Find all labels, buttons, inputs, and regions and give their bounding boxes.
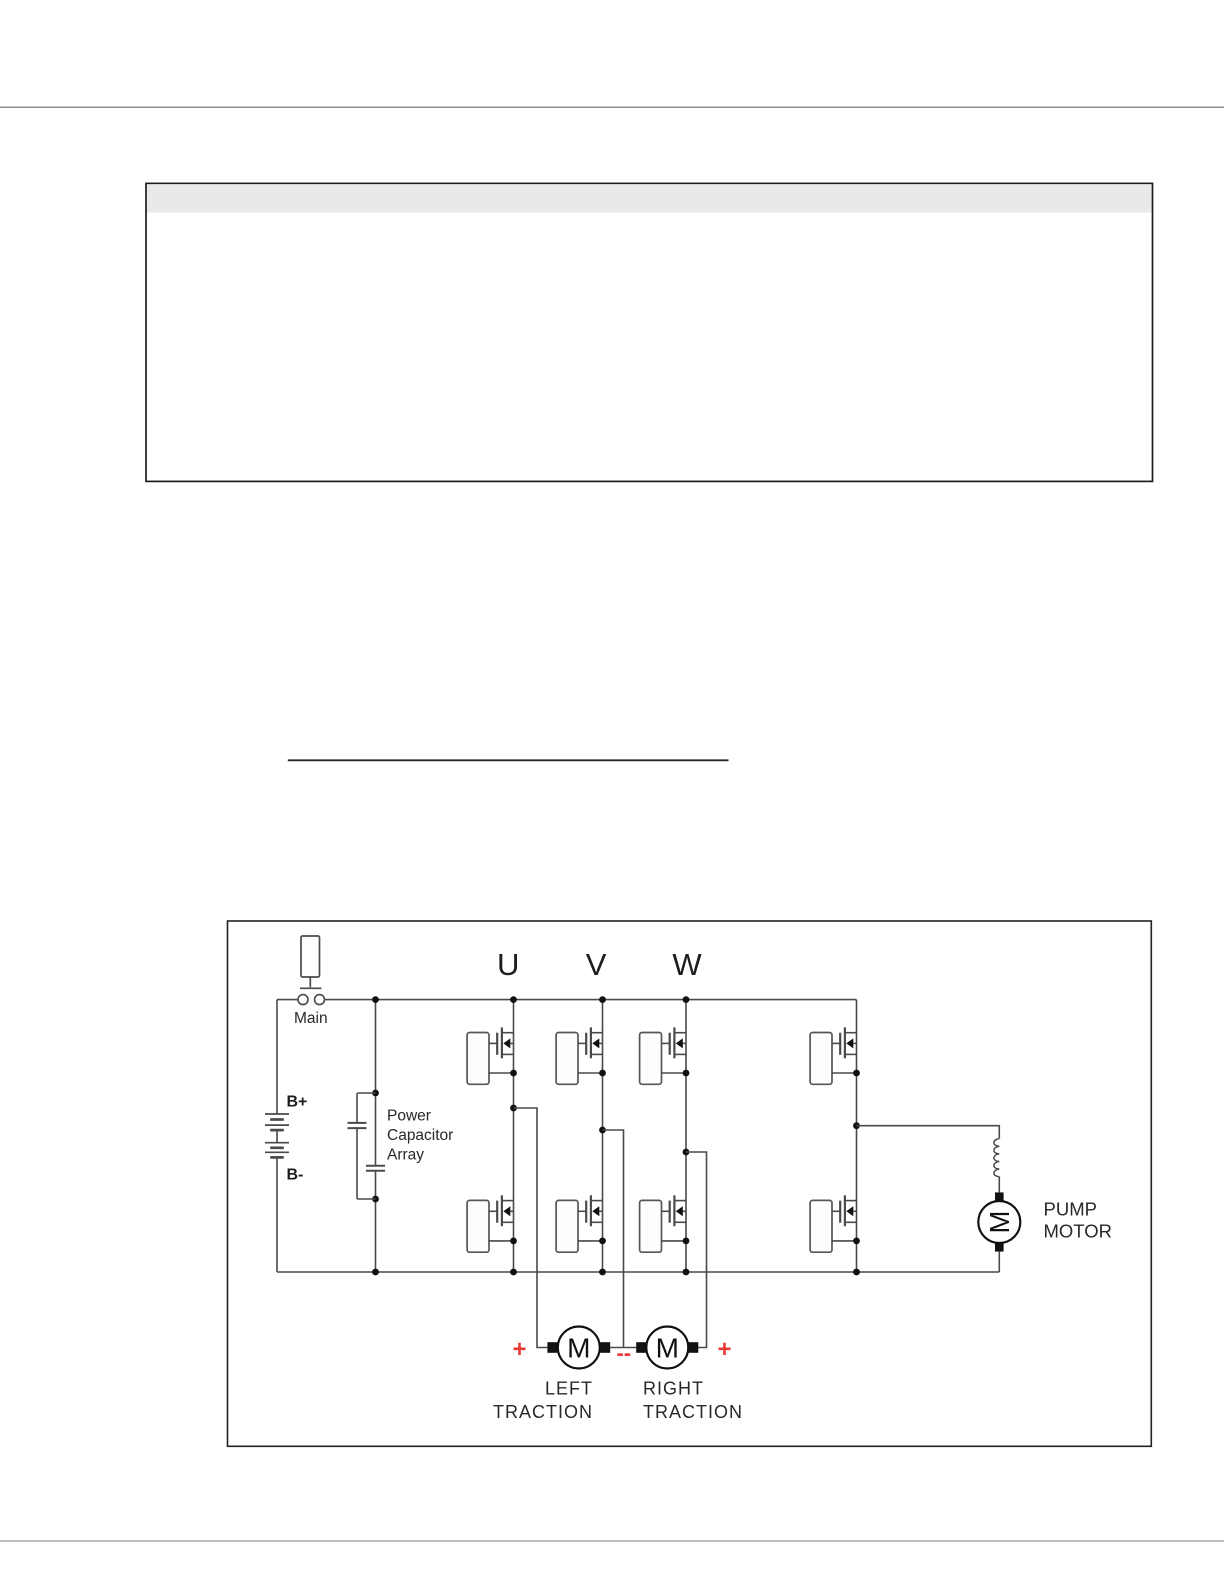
- junction: cap array on top rail: [372, 996, 379, 1003]
- wire: top rail (battery to contact): [277, 999, 298, 1001]
- wire: cap array vertical (upper): [375, 1000, 377, 1166]
- wire: battery positive lead: [276, 1000, 278, 1114]
- junction: P phase output node: [853, 1122, 860, 1129]
- junction: QUH driver stub: [510, 1070, 517, 1077]
- main contactor coil: [300, 936, 322, 988]
- capacitor C2: [366, 1166, 385, 1171]
- capacitor C1: [348, 1123, 367, 1128]
- svg-text:M: M: [567, 1332, 590, 1363]
- svg-text:V: V: [586, 947, 607, 982]
- svg-text:B-: B-: [287, 1166, 304, 1183]
- svg-text:Main: Main: [294, 1010, 328, 1027]
- mosfet QWL (low-side): [661, 1195, 686, 1226]
- junction: QWH driver stub: [683, 1070, 690, 1077]
- junction: QPH driver stub: [853, 1070, 860, 1077]
- wire: W phase to right motor: [686, 1152, 707, 1348]
- motor M1 (LEFT TRACTION): [558, 1327, 600, 1369]
- mosfet QPL (low-side): [832, 1195, 857, 1226]
- junction: cap array bottom node: [372, 1196, 379, 1203]
- junction: U leg on bottom rail: [510, 1269, 517, 1276]
- terminal: pump motor -: [995, 1243, 1004, 1252]
- gate driver block (V low-side): [556, 1200, 578, 1252]
- note box header band: [147, 184, 1152, 212]
- mosfet QPH (high-side): [832, 1027, 857, 1058]
- svg-text:B+: B+: [287, 1093, 308, 1110]
- wire: inductor to pump motor: [998, 1177, 1000, 1193]
- battery B: [265, 1114, 289, 1157]
- motor M2 (RIGHT TRACTION): [646, 1327, 688, 1369]
- wire: P leg vertical: [856, 1000, 858, 1272]
- gate driver block (P high-side): [810, 1033, 832, 1085]
- wire: link between traction motors: [610, 1347, 636, 1349]
- gate driver block (U low-side): [467, 1200, 489, 1252]
- wire: U phase to left motor: [514, 1108, 548, 1348]
- svg-text:M: M: [984, 1211, 1015, 1234]
- terminal: right motor + (outer): [688, 1342, 699, 1353]
- note box frame: [146, 183, 1153, 481]
- wire: pump motor return: [998, 1252, 1000, 1272]
- wire: battery negative lead: [276, 1157, 278, 1272]
- terminal: left motor - (inner): [600, 1342, 611, 1353]
- wire: pump phase output: [857, 1126, 1000, 1139]
- main contactor contacts: [298, 995, 325, 1005]
- mosfet QVH (high-side): [578, 1027, 603, 1058]
- wire: cap array vertical (lower): [375, 1171, 377, 1272]
- wire: V leg vertical: [602, 1000, 604, 1272]
- wire: capacitor C1 branch: [357, 1093, 376, 1199]
- gate driver block (U high-side): [467, 1033, 489, 1085]
- junction: W leg on bottom rail: [683, 1269, 690, 1276]
- terminal: left motor + (outer): [547, 1342, 558, 1353]
- mosfet QUH (high-side): [489, 1027, 514, 1058]
- gate driver block (W high-side): [640, 1033, 662, 1085]
- mosfet QUL (low-side): [489, 1195, 514, 1226]
- blank link underline: [288, 759, 729, 761]
- wire: bottom rail (B- bus): [277, 1271, 999, 1273]
- gate driver block (W low-side): [640, 1200, 662, 1252]
- svg-text:+: +: [717, 1336, 731, 1363]
- mosfet QVL (low-side): [578, 1195, 603, 1226]
- junction: cap array top node: [372, 1090, 379, 1097]
- gate driver block (V high-side): [556, 1033, 578, 1085]
- junction: U phase output node: [510, 1105, 517, 1112]
- motor M3 (PUMP): [978, 1201, 1020, 1243]
- terminal: pump motor +: [995, 1192, 1004, 1201]
- junction: QWL driver stub: [683, 1238, 690, 1245]
- top rule: [0, 106, 1224, 108]
- svg-text:+: +: [512, 1336, 526, 1363]
- terminal: right motor - (inner): [636, 1342, 647, 1353]
- junction: cap array on bottom rail: [372, 1269, 379, 1276]
- junction: V leg on top rail: [599, 996, 606, 1003]
- gate driver block (P low-side): [810, 1200, 832, 1252]
- junction: QPL driver stub: [853, 1238, 860, 1245]
- junction: W leg on top rail: [683, 996, 690, 1003]
- wire: U leg vertical: [513, 1000, 515, 1272]
- junction: QVL driver stub: [599, 1238, 606, 1245]
- svg-text:--: --: [616, 1340, 631, 1365]
- bottom rule: [0, 1540, 1224, 1542]
- junction: P leg on bottom rail: [853, 1269, 860, 1276]
- figure frame: [228, 921, 1152, 1446]
- svg-text:U: U: [497, 947, 519, 982]
- svg-text:M: M: [656, 1332, 679, 1363]
- junction: V phase output node: [599, 1127, 606, 1134]
- wire: top rail (B+ bus): [325, 999, 857, 1001]
- junction: W phase output node: [683, 1149, 690, 1156]
- mosfet QWH (high-side): [661, 1027, 686, 1058]
- inductor L1 (pump motor field): [994, 1139, 999, 1177]
- wire: V phase to motor link: [603, 1130, 624, 1348]
- wire: W leg vertical: [685, 1000, 687, 1272]
- svg-text:W: W: [672, 947, 702, 982]
- junction: U leg on top rail: [510, 996, 517, 1003]
- junction: V leg on bottom rail: [599, 1269, 606, 1276]
- junction: QVH driver stub: [599, 1070, 606, 1077]
- junction: QUL driver stub: [510, 1238, 517, 1245]
